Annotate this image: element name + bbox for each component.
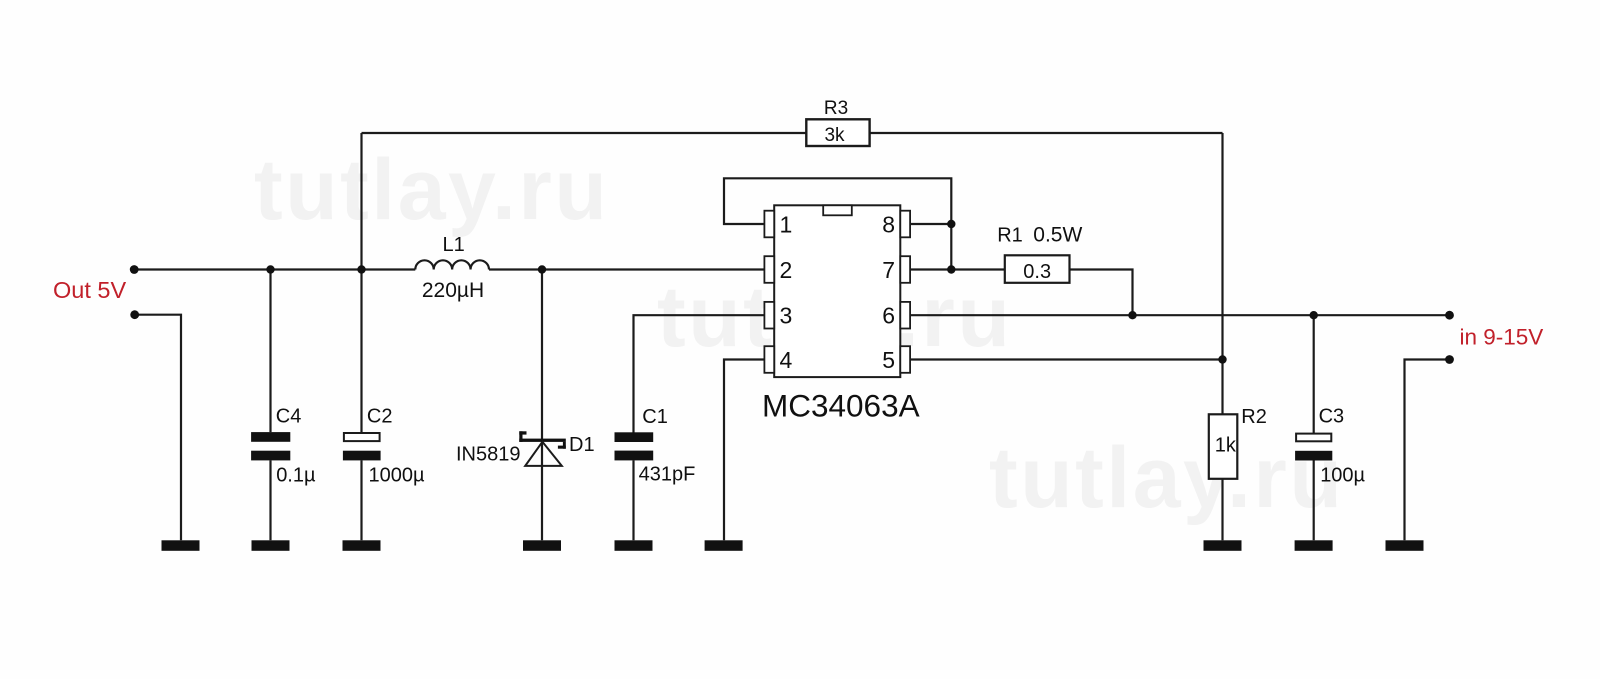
svg-text:L1: L1 (442, 234, 464, 256)
svg-text:5: 5 (882, 347, 895, 373)
svg-text:1000µ: 1000µ (369, 465, 425, 487)
svg-text:R2: R2 (1241, 406, 1267, 428)
wire D1 branch (541, 270, 543, 541)
svg-text:C1: C1 (642, 406, 668, 428)
ground bar in- (1386, 540, 1424, 551)
svg-text:220µH: 220µH (422, 279, 484, 302)
wire pin4 to ground (724, 360, 764, 541)
ground bar C4 (252, 540, 290, 551)
terminal In+ (1445, 311, 1454, 320)
svg-text:4: 4 (780, 347, 793, 373)
svg-text:3k: 3k (824, 125, 845, 146)
wire R3 top right (870, 132, 1223, 134)
ground bar C1 (615, 540, 653, 551)
wire pin5 (910, 358, 1222, 360)
wire C4 to ground (269, 460, 271, 540)
svg-text:3: 3 (780, 303, 793, 329)
resistor R2 box (1209, 414, 1238, 479)
svg-text:D1: D1 (569, 434, 595, 456)
wire output minus (135, 315, 181, 541)
svg-text:tutlay.ru: tutlay.ru (989, 430, 1344, 526)
svg-text:431pF: 431pF (639, 464, 696, 486)
wire R3 top left (362, 132, 807, 134)
junction node C4 (266, 265, 274, 273)
wire C3 to ground (1313, 461, 1315, 541)
svg-text:tutlay.ru: tutlay.ru (254, 142, 609, 238)
wire C4 branch (269, 270, 271, 433)
wire R3 down to pin5 node (1221, 133, 1223, 360)
svg-text:MC34063A: MC34063A (762, 388, 920, 424)
wire R2 top (1221, 360, 1223, 415)
pin 2 box (764, 256, 774, 283)
IC U1 MC34063A body (774, 205, 900, 377)
wire main output rail (134, 268, 415, 270)
wire L1 to pin2 (489, 268, 764, 270)
wire pin8 (910, 223, 951, 225)
wire pin6 input rail (910, 314, 1449, 316)
svg-text:R1: R1 (997, 225, 1023, 247)
svg-text:0.5W: 0.5W (1033, 224, 1082, 247)
resistor R3 box (806, 119, 869, 146)
wire pin1 loop (724, 178, 951, 269)
ground bar out- (162, 540, 200, 551)
pin 8 box (900, 211, 910, 238)
junction node C3 (1310, 311, 1318, 319)
svg-text:100µ: 100µ (1320, 465, 1365, 487)
wire R2 to ground (1221, 479, 1223, 541)
svg-text:IN5819: IN5819 (456, 444, 521, 466)
pin 1 box (764, 211, 774, 238)
svg-text:R3: R3 (824, 98, 848, 119)
capacitor C4 plates (251, 432, 290, 442)
wire C2 branch down (360, 270, 362, 433)
inductor L1 (415, 260, 489, 269)
svg-text:6: 6 (882, 303, 895, 329)
svg-text:C4: C4 (276, 405, 302, 427)
wire C3 branch (1313, 315, 1315, 433)
wire R1 out (1070, 270, 1133, 316)
wire C2 to ground (360, 460, 362, 540)
diode D1 cathode bar with schottky hooks (519, 431, 566, 448)
capacitor C3 plates (1296, 434, 1331, 442)
IC notch (823, 205, 852, 215)
junction node pin8 loop (947, 220, 955, 228)
svg-text:8: 8 (882, 212, 895, 238)
junction node C2/R3 (357, 265, 365, 273)
resistor R1 box (1005, 255, 1070, 282)
svg-text:1: 1 (780, 212, 793, 238)
pin 5 box (900, 346, 910, 373)
wire pin7 to R1 (910, 268, 1005, 270)
ground bar C3 (1295, 540, 1333, 551)
svg-text:0.3: 0.3 (1023, 261, 1051, 283)
wire input minus (1405, 360, 1450, 541)
svg-text:in 9-15V: in 9-15V (1460, 325, 1544, 350)
pin 6 box (900, 302, 910, 329)
terminal Out+ (130, 265, 139, 274)
svg-text:C3: C3 (1319, 405, 1345, 427)
pin 7 box (900, 256, 910, 283)
pin 3 box (764, 302, 774, 329)
ground bar C2 (343, 540, 381, 551)
junction node R1/pin6 (1128, 311, 1136, 319)
ground bar pin4 (705, 540, 743, 551)
wire C1 to ground (632, 460, 634, 540)
svg-text:1k: 1k (1215, 435, 1237, 457)
svg-text:0.1µ: 0.1µ (276, 465, 316, 487)
capacitor C2 plates (344, 433, 380, 441)
junction node R2/pin5 (1218, 355, 1226, 363)
svg-text:Out 5V: Out 5V (53, 277, 126, 303)
terminal In- (1445, 355, 1454, 364)
junction node D1/L1 (538, 265, 546, 273)
junction node pin7 loop (947, 265, 955, 273)
svg-text:2: 2 (780, 257, 793, 283)
svg-text:7: 7 (882, 257, 895, 283)
ground bar R2 (1204, 540, 1242, 551)
diode D1 triangle (525, 442, 562, 466)
capacitor C1 plates (615, 432, 654, 442)
wire C2/R3 branch up (360, 133, 362, 270)
pin 4 box (764, 346, 774, 373)
ground bar D1 (523, 540, 561, 551)
wire pin3 to C1 (634, 315, 765, 433)
terminal Out- (130, 310, 139, 319)
svg-text:C2: C2 (367, 405, 393, 427)
